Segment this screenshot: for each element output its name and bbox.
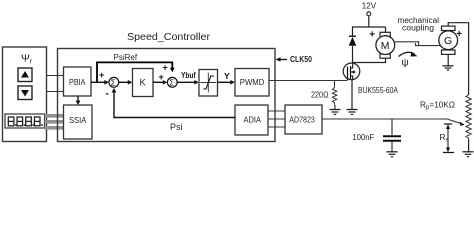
svg-text:G: G [444, 35, 452, 47]
wire 12V to rail [368, 16, 370, 27]
bus ADIA to AD7823 [268, 111, 285, 127]
wire button down to PBIA [47, 91, 64, 93]
svg-text:Σ: Σ [111, 77, 116, 87]
block AD7823 [285, 105, 322, 134]
summer S2 [167, 77, 177, 87]
display 8.8.8.8 [5, 114, 45, 128]
wire diode to drain node [352, 46, 354, 64]
block K [133, 69, 154, 97]
wire wiper to AD7823 [322, 119, 465, 126]
wire motor bottom to drain node [353, 58, 386, 62]
wire source to ground [351, 80, 353, 110]
svg-text:220Ω: 220Ω [311, 90, 329, 100]
svg-text:CLK50: CLK50 [290, 55, 312, 64]
svg-text:ψ: ψ [402, 58, 409, 69]
svg-text:Ybuf: Ybuf [181, 71, 196, 80]
net PsiRef wire [97, 62, 172, 82]
resistor 220 ohm [332, 81, 336, 106]
wire S1 to K [119, 80, 133, 85]
supply 12V terminal [367, 12, 371, 16]
block PBIA [64, 67, 92, 96]
svg-text:Psi: Psi [170, 122, 183, 132]
block PWMD [235, 69, 269, 97]
svg-text:BUK555-60A: BUK555-60A [358, 85, 398, 95]
svg-text:+: + [369, 30, 375, 41]
svg-text:M: M [381, 40, 390, 52]
block ADIA [235, 105, 268, 135]
wire S2 to limiter [177, 80, 199, 85]
svg-text:PWMD: PWMD [240, 77, 264, 87]
wire pot to ground [468, 140, 470, 152]
svg-text:coupling: coupling [402, 24, 434, 33]
wire PBIA to SSIA [76, 96, 81, 105]
svg-text:100nF: 100nF [352, 132, 374, 142]
block limiter [199, 70, 218, 97]
operator panel box [3, 47, 47, 142]
wire G to potentiometer [448, 23, 468, 95]
svg-text:12V: 12V [362, 2, 377, 11]
button up [18, 68, 32, 82]
rotation arrow [399, 52, 415, 56]
net Psi wire [114, 91, 235, 118]
wire limiter to PWMD [218, 80, 235, 85]
svg-text:PsiRef: PsiRef [114, 53, 138, 62]
svg-text:K: K [140, 78, 147, 89]
svg-text:Speed_Controller: Speed_Controller [127, 31, 211, 43]
svg-text:ADIA: ADIA [244, 115, 262, 125]
dimension Rs arrow [443, 124, 454, 153]
svg-text:+: + [163, 63, 168, 73]
transistor Q1 BUK555-60A [343, 63, 360, 80]
diode freewheel [349, 36, 357, 46]
wire rail to motor [385, 27, 387, 32]
wire button up to PBIA [47, 75, 64, 77]
potentiometer Rp [466, 95, 471, 140]
ground (generator) [443, 66, 454, 70]
ground (MOSFET source) [347, 110, 358, 115]
mechanical coupling symbol [395, 42, 441, 46]
ground (220 ohm) [330, 106, 341, 115]
wire K to S2 [153, 80, 167, 85]
button down [18, 86, 32, 100]
svg-text:AD7823: AD7823 [289, 115, 315, 125]
block SSIA [64, 105, 93, 139]
wire G to ground [447, 54, 449, 65]
motor M [376, 32, 395, 58]
bus display to SSIA [45, 114, 64, 130]
Speed_Controller box [58, 49, 276, 142]
svg-text:PBIA: PBIA [69, 77, 86, 87]
svg-text:+: + [159, 72, 164, 82]
capacitor C 100nF [383, 119, 401, 152]
svg-text:Y: Y [224, 71, 230, 81]
ground (potentiometer) [463, 152, 474, 157]
wire PBIA to summer S1 [91, 80, 109, 85]
generator G [439, 26, 458, 54]
wire rail to diode [352, 26, 354, 36]
wire PWMD to gate [269, 80, 347, 82]
input CLK50 arrow [276, 57, 288, 62]
svg-text:Σ: Σ [169, 77, 174, 87]
ground (capacitor) [387, 152, 398, 157]
wire top rail [353, 26, 386, 28]
svg-text:-: - [106, 89, 109, 100]
svg-text:SSIA: SSIA [69, 115, 87, 125]
svg-text:+: + [99, 70, 104, 80]
svg-text:Rp=10KΩ: Rp=10KΩ [420, 101, 455, 112]
summer S1 [109, 77, 119, 87]
